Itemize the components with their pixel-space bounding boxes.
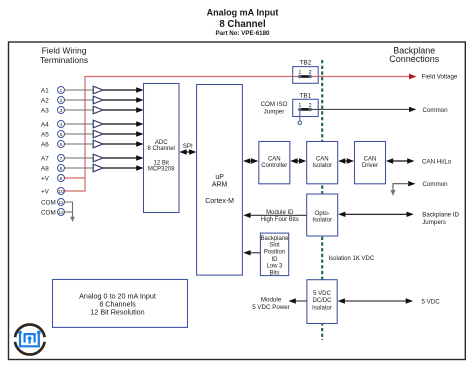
svg-text:Connections: Connections <box>389 54 440 64</box>
svg-text:12 Bit Resolution: 12 Bit Resolution <box>90 307 144 316</box>
svg-text:COM ISO: COM ISO <box>261 101 288 108</box>
svg-text:DC/DC: DC/DC <box>313 298 333 304</box>
svg-text:A7: A7 <box>41 155 49 162</box>
svg-text:Part No: VPE-6180: Part No: VPE-6180 <box>216 30 271 37</box>
wire A5 <box>65 133 94 135</box>
svg-text:A4: A4 <box>41 121 49 128</box>
wire +V terminal 10 (pink) <box>65 178 86 191</box>
svg-text:Common: Common <box>423 107 449 114</box>
svg-text:Low 3: Low 3 <box>266 264 283 270</box>
svg-text:MCP3208: MCP3208 <box>148 166 175 172</box>
wire A4 to ADC <box>103 121 144 126</box>
wire common return elbow <box>391 181 416 196</box>
wire A1 <box>65 89 94 91</box>
svg-text:Opto-: Opto- <box>315 211 330 217</box>
heading field wiring terminations <box>40 46 88 66</box>
isolation barrier (green dashed) <box>321 60 323 340</box>
svg-text:5 VDC: 5 VDC <box>313 291 331 297</box>
svg-text:8 Channel: 8 Channel <box>219 19 265 30</box>
label module 5 VDC power <box>252 297 289 312</box>
svg-text:9: 9 <box>60 176 63 182</box>
backplane slot position block <box>260 233 289 276</box>
svg-text:3: 3 <box>60 108 63 114</box>
terminal A4 <box>41 121 65 129</box>
svg-text:11: 11 <box>59 200 64 206</box>
wire COM 12 <box>65 211 73 213</box>
wire A5 to ADC <box>103 131 144 136</box>
terminal A3 <box>41 107 65 115</box>
wire A2 to ADC <box>103 97 144 102</box>
terminal A6 <box>41 141 65 149</box>
label COM ISO jumper <box>261 101 288 116</box>
terminal COM 11 <box>41 199 65 207</box>
svg-text:COM: COM <box>41 209 56 216</box>
svg-text:A6: A6 <box>41 141 49 148</box>
svg-text:Module ID: Module ID <box>266 210 294 216</box>
svg-text:COM: COM <box>41 199 56 206</box>
svg-text:7: 7 <box>60 156 63 162</box>
svg-text:2: 2 <box>60 98 63 104</box>
svg-text:+V: +V <box>41 175 50 182</box>
heading backplane connections <box>389 45 440 64</box>
svg-text:Isolator: Isolator <box>312 306 332 312</box>
svg-text:CAN: CAN <box>268 156 281 162</box>
svg-text:uP: uP <box>215 174 224 181</box>
SPI bus wire <box>179 149 196 154</box>
CAN controller U3 <box>259 142 290 184</box>
svg-text:SPI: SPI <box>183 143 193 150</box>
svg-text:CAN: CAN <box>364 156 377 162</box>
svg-text:ARM: ARM <box>212 182 228 189</box>
svg-text:TB1: TB1 <box>299 93 311 100</box>
terminal A2 <box>41 97 65 105</box>
opto-isolator U6 <box>307 194 338 236</box>
svg-text:Isolator: Isolator <box>312 163 332 169</box>
svg-text:TB2: TB2 <box>299 60 311 67</box>
svg-text:1: 1 <box>60 88 63 94</box>
wire TB1 common <box>310 107 416 112</box>
wire COM <box>65 202 73 218</box>
wire slot position to uP <box>243 250 260 255</box>
wire A6 to ADC <box>103 141 144 146</box>
terminal COM 12 <box>41 209 65 217</box>
svg-text:Controller: Controller <box>261 163 287 169</box>
svg-text:8: 8 <box>60 166 63 172</box>
svg-text:A1: A1 <box>41 87 49 94</box>
wire A2 <box>65 99 94 101</box>
terminal +V 9 <box>41 175 65 183</box>
bus CAN hi/lo <box>386 158 415 163</box>
terminal A5 <box>41 131 65 139</box>
svg-text:Backplane ID: Backplane ID <box>422 212 459 219</box>
wire A3 to ADC <box>103 107 144 112</box>
bus uP to CAN controller <box>243 158 258 163</box>
terminal A1 <box>41 87 65 95</box>
buffer A1 <box>93 86 103 94</box>
wire A1 to ADC <box>103 87 144 92</box>
buffer A3 <box>93 106 103 114</box>
wire A4 <box>65 123 94 125</box>
svg-text:Terminations: Terminations <box>40 55 88 65</box>
terminal A8 <box>41 165 65 173</box>
svg-text:5: 5 <box>60 132 63 138</box>
svg-text:A5: A5 <box>41 131 49 138</box>
title <box>207 8 279 37</box>
product description box <box>53 280 188 328</box>
svg-text:High Four Bits: High Four Bits <box>261 217 299 223</box>
svg-text:Jumper: Jumper <box>264 108 285 115</box>
wire module 5VDC power <box>289 298 307 303</box>
svg-text:5 VDC Power: 5 VDC Power <box>252 304 289 311</box>
bus 5 VDC backplane <box>338 298 413 303</box>
buffer A2 <box>93 96 103 104</box>
svg-text:Position: Position <box>264 250 285 256</box>
svg-text:10: 10 <box>58 189 64 195</box>
wire A7 to ADC <box>103 155 144 160</box>
svg-text:Isolator: Isolator <box>312 218 332 224</box>
bus CAN controller to CAN isolator <box>290 158 306 163</box>
logo ring <box>15 324 45 354</box>
svg-text:Slot: Slot <box>269 243 280 249</box>
buffer A6 <box>93 140 103 148</box>
svg-text:Driver: Driver <box>362 163 378 169</box>
label module ID high four bits <box>261 210 299 223</box>
wire A8 <box>65 167 94 169</box>
svg-text:5 VDC: 5 VDC <box>422 298 441 305</box>
svg-text:A3: A3 <box>41 107 49 114</box>
ground arrow COM <box>70 217 75 222</box>
svg-text:Field Wiring: Field Wiring <box>42 46 87 56</box>
svg-text:12: 12 <box>58 210 64 216</box>
svg-text:Isolation 1K VDC: Isolation 1K VDC <box>329 256 375 262</box>
ADC U1 <box>144 84 180 213</box>
svg-text:CAN Hi/Lo: CAN Hi/Lo <box>422 158 452 165</box>
label backplane ID jumpers <box>422 212 459 227</box>
microcontroller U2 <box>197 85 243 276</box>
terminal +V 10 <box>41 188 65 196</box>
wire +V field voltage (pink) <box>65 77 410 179</box>
svg-text:Module: Module <box>261 297 282 304</box>
svg-text:A2: A2 <box>41 97 49 104</box>
svg-text:Analog mA Input: Analog mA Input <box>207 8 279 18</box>
CAN isolator U4 <box>307 142 338 184</box>
svg-text:Field Voltage: Field Voltage <box>422 73 458 80</box>
svg-text:ID: ID <box>272 257 279 263</box>
svg-text:Jumpers: Jumpers <box>422 219 446 226</box>
svg-text:6: 6 <box>60 142 63 148</box>
wire A8 to ADC <box>103 165 144 170</box>
CAN driver U5 <box>355 142 386 184</box>
field voltage arrowhead <box>409 74 417 80</box>
svg-text:+V: +V <box>41 188 50 195</box>
terminal A7 <box>41 155 65 163</box>
svg-text:Bits: Bits <box>269 271 279 277</box>
jumper stub TB1 pin1 <box>298 109 302 124</box>
svg-text:Backplane: Backplane <box>260 236 289 242</box>
DC/DC isolator U7 <box>307 280 337 324</box>
wire module ID to uP <box>243 213 306 218</box>
terminal block TB2 <box>293 60 319 84</box>
wire A3 <box>65 109 94 111</box>
buffer A7 <box>93 154 103 162</box>
bus CAN isolator to CAN driver <box>338 158 354 163</box>
svg-text:8 Channel: 8 Channel <box>148 146 175 152</box>
buffer A4 <box>93 120 103 128</box>
buffer A8 <box>93 164 103 172</box>
logo maze glyph <box>18 331 41 347</box>
svg-text:Cortex-M: Cortex-M <box>205 198 234 205</box>
wire A6 <box>65 143 94 145</box>
svg-text:4: 4 <box>60 122 63 128</box>
wire A7 <box>65 157 94 159</box>
bus backplane ID jumpers <box>338 212 414 217</box>
svg-text:A8: A8 <box>41 165 49 172</box>
buffer A5 <box>93 130 103 138</box>
terminal block TB1 <box>293 93 319 117</box>
svg-text:Common: Common <box>423 181 449 188</box>
svg-text:CAN: CAN <box>316 156 329 162</box>
